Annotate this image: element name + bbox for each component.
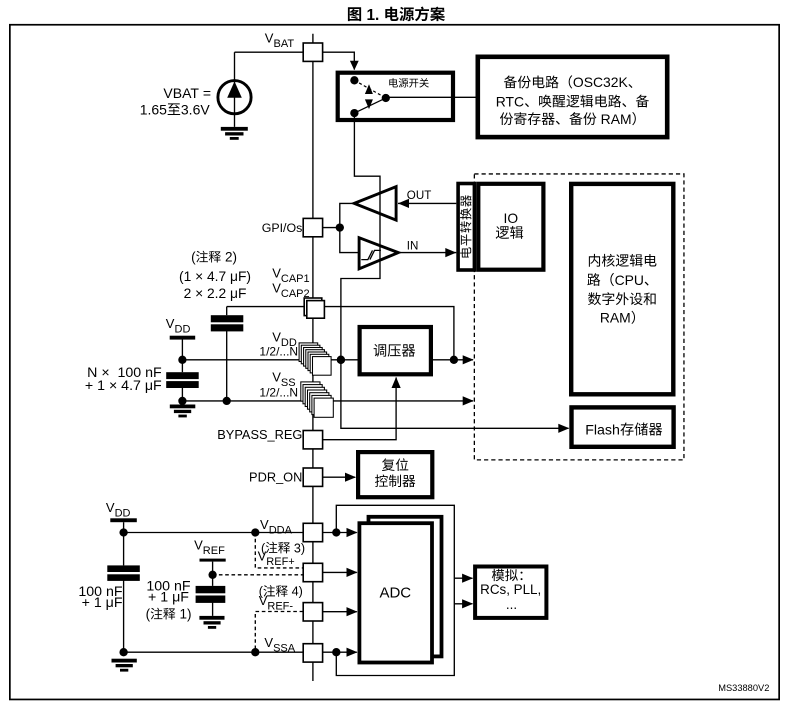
ground VSSA bottom-left: [112, 659, 137, 672]
wire VDDA pad to ADC: [323, 528, 358, 537]
node regulator output: [450, 356, 458, 364]
switch arrow up: [365, 84, 373, 94]
pad BYPASS_REG: [303, 431, 322, 449]
pads V_SS 1/2/...N stack: [301, 382, 334, 417]
svg-text:RTC: RTC: [496, 93, 524, 109]
svg-text:CAP1: CAP1: [281, 273, 310, 285]
svg-text:1.: 1.: [362, 7, 383, 24]
label 电平转换器 vertical: [460, 195, 471, 257]
dashed box core domain: [474, 174, 684, 460]
label GPI/Os: [262, 221, 303, 235]
svg-text:RAM: RAM: [597, 111, 632, 127]
text analog: [480, 569, 541, 612]
wire VSSA pad to ADC: [323, 648, 358, 657]
text IO logic: [496, 211, 523, 239]
pad V_BAT: [303, 43, 322, 61]
svg-text:ADC: ADC: [379, 584, 411, 601]
ground VBAT source: [221, 127, 248, 140]
label MS33880V2: [718, 683, 769, 693]
label V_DDA: [260, 517, 293, 537]
svg-text:GPI/Os: GPI/Os: [262, 221, 303, 235]
node VDDA to VREF+ tap: [251, 528, 259, 536]
wire VDDA cap stems: [123, 533, 125, 653]
label note3: [261, 541, 305, 555]
wire VDDA rail: [124, 522, 304, 532]
svg-text:V: V: [264, 635, 273, 650]
svg-text:4): 4): [288, 585, 303, 599]
wire VSS rail into core domain: [182, 396, 473, 405]
title 图 1. 电源方案: [348, 7, 445, 24]
svg-text:V: V: [258, 549, 267, 564]
text 100nF + 1uF left: [78, 584, 123, 611]
wire VREF+ pad to ADC: [323, 568, 358, 577]
svg-text:2): 2): [221, 250, 237, 265]
source VBAT: [218, 81, 251, 114]
svg-text:1.65: 1.65: [140, 101, 167, 117]
svg-text:DD: DD: [115, 507, 131, 519]
wire BYPASS_REG to regulator: [323, 377, 401, 440]
box analog 模拟: [475, 567, 546, 618]
node VDDA ring junction: [332, 528, 340, 536]
buffer OUT: [354, 187, 396, 220]
label V_CAP1 V_CAP2: [272, 266, 309, 301]
svg-text:+ 1 μF: + 1 μF: [148, 590, 189, 606]
switch arrow down: [365, 99, 373, 109]
text VBAT value: [140, 85, 211, 118]
text ADC: [379, 584, 411, 601]
wire VCAP cap to pad: [227, 306, 305, 308]
svg-text:IO: IO: [504, 211, 519, 226]
label V_SS pins: [259, 370, 298, 400]
pad V_DDA: [303, 523, 322, 541]
svg-text:RCs, PLL,: RCs, PLL,: [480, 582, 541, 597]
rail VDD bottom-left: [110, 518, 137, 522]
box level shifter 电平转换器: [458, 184, 474, 271]
rail VDD mid-left: [170, 336, 196, 340]
capacitor VCAP note2: [211, 315, 244, 331]
svg-text:REF: REF: [203, 545, 225, 557]
text backup circuit: [496, 74, 649, 127]
wire VSSA rail: [124, 651, 304, 653]
ground VREF: [199, 616, 224, 629]
node VREF- to VSSA tap: [251, 648, 259, 656]
node VREF junction: [208, 571, 216, 579]
dashed wire VREF to VREF+: [213, 574, 304, 576]
svg-text:3): 3): [290, 541, 305, 555]
capacitor VDD decoupling: [166, 372, 199, 388]
svg-text:SSA: SSA: [273, 643, 296, 655]
wire note2 cap stems: [226, 307, 228, 401]
box backup circuit 备份电路: [478, 57, 667, 137]
svg-text:3.6V: 3.6V: [181, 101, 210, 117]
box IO logic IO逻辑: [478, 184, 543, 270]
capacitor VREF: [196, 586, 226, 603]
wire GPIO pad to node: [323, 227, 340, 229]
label V_REF-: [259, 593, 294, 613]
label VREF: [194, 538, 225, 558]
buffer IN schmitt: [359, 238, 398, 269]
switch contact bottom: [350, 109, 358, 117]
label V_DD pins: [259, 330, 298, 359]
svg-text:REF-: REF-: [267, 601, 293, 613]
svg-text:Flash: Flash: [585, 422, 620, 438]
label 电源开关: [389, 78, 428, 87]
wire bus pin column: [312, 34, 314, 681]
wire node to OUT buffer: [340, 203, 354, 227]
text regulator: [374, 344, 416, 357]
label V_BAT: [265, 31, 295, 51]
box core logic 内核逻辑电路: [571, 184, 673, 394]
wire level shifter to OUT buffer: [398, 199, 456, 208]
switch contact top: [350, 76, 358, 84]
svg-text:V: V: [272, 370, 281, 385]
svg-text:CPU: CPU: [615, 272, 644, 288]
svg-text:RAM: RAM: [600, 310, 631, 326]
svg-text:1): 1): [176, 607, 192, 622]
svg-text:V: V: [166, 316, 175, 331]
box regulator 调压器: [360, 327, 431, 374]
label OUT: [407, 189, 431, 202]
node VSSA rail junction: [119, 648, 127, 656]
label V_REF+: [258, 549, 295, 569]
svg-text:+ 1 μF: + 1 μF: [82, 595, 123, 611]
svg-text:OSC32K: OSC32K: [573, 74, 629, 90]
svg-text:OUT: OUT: [407, 189, 431, 202]
svg-text:VBAT =: VBAT =: [163, 85, 211, 101]
svg-text:V: V: [260, 517, 269, 532]
wire VCAP pad to regulator output node: [324, 307, 454, 360]
wire VDD rail to regulator: [182, 340, 357, 360]
svg-text:+ 1 × 4.7 μF: + 1 × 4.7 μF: [85, 378, 162, 394]
text N x 100 nF + 1 x 4.7 uF: [85, 365, 162, 394]
svg-text:CAP2: CAP2: [281, 288, 310, 300]
label PDR_ON: [249, 470, 302, 485]
svg-text:PDR_ON: PDR_ON: [249, 470, 302, 485]
text 100nF + 1uF note1: [146, 578, 192, 621]
pad V_SSA: [303, 644, 322, 662]
svg-text:V: V: [106, 500, 115, 515]
wire power switch to VDD node to Flash: [341, 113, 569, 433]
switch solid throw: [354, 98, 385, 113]
node VSS rail junction: [178, 397, 186, 405]
pad V_REF+: [303, 563, 322, 581]
node note2 cap to VSS: [223, 397, 231, 405]
node VDD regulator junction redraw: [337, 356, 345, 364]
svg-text:(: (: [146, 607, 151, 622]
text note2 values: [179, 250, 251, 301]
svg-text:BAT: BAT: [274, 38, 295, 50]
svg-text:(1 × 4.7 μF): (1 × 4.7 μF): [179, 269, 251, 284]
wire VBAT source to pad: [235, 51, 304, 53]
pad V_CAP1 V_CAP2: [304, 298, 324, 318]
node VDD regulator junction: [337, 356, 345, 364]
box reset controller 复位控制器: [358, 452, 432, 497]
wire power switch output to backup box: [386, 96, 476, 98]
label VDD mid-left: [166, 316, 191, 336]
text Flash memory: [585, 422, 662, 438]
wire VDD cap stems: [181, 360, 183, 401]
wire VBAT source vertical: [234, 52, 236, 127]
dashed wire VREF- to VSSA: [255, 612, 303, 653]
svg-text:...: ...: [506, 597, 517, 612]
rail VREF: [200, 559, 226, 562]
text core logic: [587, 254, 656, 326]
ground VSS mid-left: [170, 405, 196, 418]
svg-text:V: V: [259, 593, 268, 608]
wire VREF- pad to ADC: [323, 607, 358, 616]
label IN: [407, 240, 419, 253]
svg-text:DDA: DDA: [269, 525, 293, 537]
label VDD bottom-left: [106, 500, 131, 520]
svg-text:V: V: [265, 31, 274, 46]
switch dashed throw: [354, 80, 385, 98]
box ADC front: [359, 523, 432, 662]
node VSSA ring junction: [332, 648, 340, 656]
node GPIO junction: [336, 223, 344, 231]
pad GPI/Os: [303, 218, 322, 236]
svg-text:V: V: [272, 281, 281, 296]
wire IN buffer to level shifter: [398, 248, 456, 257]
box Flash memory: [572, 407, 674, 446]
node VDD rail junction: [178, 356, 186, 364]
svg-text:(: (: [191, 250, 196, 265]
switch pole: [382, 94, 390, 102]
wire regulator output into core domain: [433, 355, 474, 364]
capacitor VDDA decoupling: [107, 565, 140, 580]
svg-text:2 × 2.2 μF: 2 × 2.2 μF: [184, 286, 247, 301]
text reset controller: [375, 458, 415, 487]
node VDDA rail junction: [119, 528, 127, 536]
label V_SSA: [264, 635, 295, 655]
box power switch 电源开关: [338, 73, 453, 120]
svg-text:V: V: [272, 330, 281, 345]
svg-text:MS33880V2: MS33880V2: [718, 683, 769, 693]
wire PDR_ON to reset controller: [323, 473, 356, 482]
svg-text:1/2/...N: 1/2/...N: [259, 386, 298, 400]
svg-text:BYPASS_REG: BYPASS_REG: [217, 427, 302, 442]
dashed wire VDDA to VREF+: [255, 533, 303, 568]
svg-text:1/2/...N: 1/2/...N: [259, 344, 298, 358]
svg-text:V: V: [272, 266, 281, 281]
svg-text:IN: IN: [407, 240, 419, 253]
svg-text:REF+: REF+: [266, 556, 294, 568]
box ADC back: [369, 517, 442, 657]
pad V_REF-: [303, 603, 322, 621]
label BYPASS_REG: [217, 427, 302, 442]
wire analog supply ring: [336, 505, 454, 675]
svg-text:DD: DD: [175, 324, 191, 336]
label note4: [259, 585, 303, 599]
wire node to IN buffer: [340, 228, 359, 253]
svg-text:V: V: [194, 538, 203, 553]
wire ADC to analog box upper: [454, 574, 473, 583]
wire VBAT pad to power switch: [323, 52, 359, 70]
wire VREF rail stem: [212, 562, 214, 616]
pads V_DD 1/2/...N stack: [299, 343, 331, 375]
pad PDR_ON: [303, 468, 322, 486]
wire ADC to analog box lower: [454, 599, 473, 608]
